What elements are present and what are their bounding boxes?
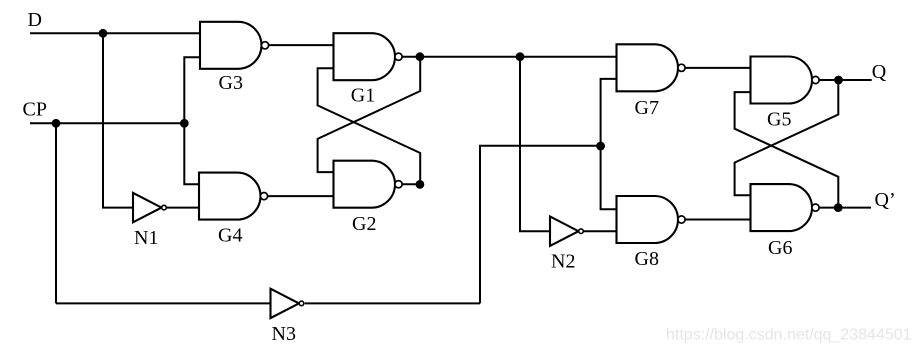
wire feedback up and right to node — [480, 146, 601, 304]
junction node CP junction left — [52, 119, 61, 128]
NAND gate G8 — [617, 196, 686, 243]
wire CP branch down to bottom feedback — [55, 123, 57, 303]
wire cross-couple G1 out to G2 upper input — [318, 57, 421, 172]
svg-text:G8: G8 — [635, 248, 659, 270]
wire bottom feedback to N3 input — [56, 302, 271, 304]
wire G6 output to Q' — [820, 207, 872, 209]
wire cross-couple Q to G6 upper input — [735, 80, 839, 195]
wire G1 output run to G7 — [402, 56, 616, 58]
svg-text:G2: G2 — [352, 213, 376, 235]
junction node G2 output node — [416, 180, 425, 189]
wire G3 output to G1 input — [269, 44, 334, 46]
wire G8 output to G6 input — [686, 219, 751, 221]
junction node Q node — [834, 76, 843, 85]
NAND gate G6 — [751, 184, 820, 231]
svg-text:G5: G5 — [767, 108, 791, 130]
inverter N2 — [550, 217, 583, 246]
svg-text:Q: Q — [872, 61, 887, 83]
NAND gate G5 — [751, 57, 820, 104]
svg-text:G4: G4 — [218, 224, 242, 246]
NAND gate G1 — [334, 33, 403, 80]
svg-text:N2: N2 — [551, 250, 575, 272]
wire cross-couple Q' to G5 lower input — [735, 92, 839, 208]
wire CP2 vertical to G7 and G8 inputs — [601, 79, 617, 209]
junction node CP junction right — [180, 119, 189, 128]
svg-text:G7: G7 — [635, 97, 659, 119]
svg-text:CP: CP — [23, 98, 47, 120]
wire N3 output run — [305, 302, 480, 304]
wire N1 output to G4 input — [167, 207, 199, 209]
NAND gate G2 — [334, 161, 403, 208]
svg-text:https://blog.csdn.net/qq_23844: https://blog.csdn.net/qq_23844501 — [666, 327, 912, 344]
junction node feedback tap node — [596, 142, 605, 151]
svg-text:N1: N1 — [134, 227, 158, 249]
wire D branch down to N1 input — [103, 33, 133, 207]
wire G5 output to Q — [820, 79, 872, 81]
wire G7 output to G5 input — [686, 67, 751, 69]
junction node D junction — [99, 29, 108, 38]
wire node down to N2 input — [520, 57, 550, 232]
NAND gate G3 — [200, 22, 269, 69]
svg-text:N3: N3 — [272, 323, 296, 345]
inverter N1 — [133, 193, 166, 222]
junction node G1 output node — [416, 52, 425, 61]
svg-text:G1: G1 — [351, 84, 375, 106]
svg-text:G3: G3 — [219, 72, 243, 94]
junction node CP2 tap node — [516, 52, 525, 61]
junction node Q' node — [834, 203, 843, 212]
wire CP branch to G3 lower and G4 upper inputs — [184, 57, 200, 184]
wire input D horizontal — [30, 32, 200, 34]
wire input CP horizontal — [30, 122, 184, 124]
svg-text:Q’: Q’ — [875, 189, 896, 211]
NAND gate G7 — [617, 44, 686, 91]
wire G2 output to node — [402, 183, 420, 185]
wire cross-couple G2 out to G1 lower input — [318, 68, 421, 184]
svg-text:D: D — [28, 9, 42, 31]
wire G4 output to G2 input — [268, 195, 334, 197]
svg-text:G6: G6 — [768, 237, 792, 259]
NAND gate G4 — [199, 173, 268, 220]
inverter N3 — [271, 289, 304, 318]
wire N2 output to G8 input — [584, 230, 617, 232]
